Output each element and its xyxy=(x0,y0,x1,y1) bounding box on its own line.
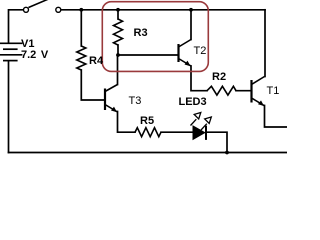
label T3 xyxy=(129,95,142,107)
resistor R3 xyxy=(114,19,123,45)
node A junction dot R3 bottom xyxy=(116,53,120,57)
label R5 xyxy=(140,115,154,127)
wire T3 emitter to R5 xyxy=(118,112,136,133)
wire bottom rail xyxy=(9,152,288,154)
transistor T3 xyxy=(105,85,118,113)
LED3 xyxy=(191,113,212,140)
resistor R5 xyxy=(135,128,161,137)
resistor R2 xyxy=(207,86,236,95)
wire R5 to LED3 anode xyxy=(161,131,193,133)
wire R3 top lead xyxy=(117,10,119,19)
resistor R4 xyxy=(77,46,86,70)
switch S1 xyxy=(24,0,61,12)
wire right vertical to T1 collector xyxy=(264,10,266,77)
wire battery bottom to bottom rail xyxy=(8,61,10,153)
node junction dot T2 collector top xyxy=(189,8,193,12)
label R3 xyxy=(134,27,148,39)
label R2 xyxy=(212,71,226,83)
wire R3 bottom to T2 base xyxy=(118,45,178,55)
wire R4 top lead xyxy=(80,10,82,46)
label R4 xyxy=(89,55,103,67)
wire T2 emitter to R2 xyxy=(191,66,207,91)
wire node A down to T3 collector xyxy=(117,55,119,85)
label T2 xyxy=(194,45,207,57)
wire top from switch to right corner xyxy=(61,9,265,11)
wire LED3 cathode to bottom rail xyxy=(207,132,227,152)
wire R4 bottom lead to T3 base xyxy=(81,70,104,100)
label V1 xyxy=(21,38,34,50)
battery V1 xyxy=(0,43,22,60)
label 7.2 V xyxy=(21,49,48,61)
highlight box (red rounded rect) xyxy=(102,2,208,72)
transistor T1 xyxy=(252,77,265,107)
wire top-left from battery to switch xyxy=(9,10,24,43)
label T1 xyxy=(267,85,280,97)
wire T2 collector to top rail xyxy=(190,10,192,40)
node A junction dot R3 top xyxy=(116,8,120,12)
transistor T2 xyxy=(179,40,192,67)
wire T1 emitter exit right xyxy=(265,106,288,128)
label LED3 xyxy=(179,96,207,108)
node junction dot bottom rail LED xyxy=(225,151,229,155)
wire R2 to T1 base xyxy=(236,90,251,92)
node junction dot R4 top xyxy=(79,8,83,12)
